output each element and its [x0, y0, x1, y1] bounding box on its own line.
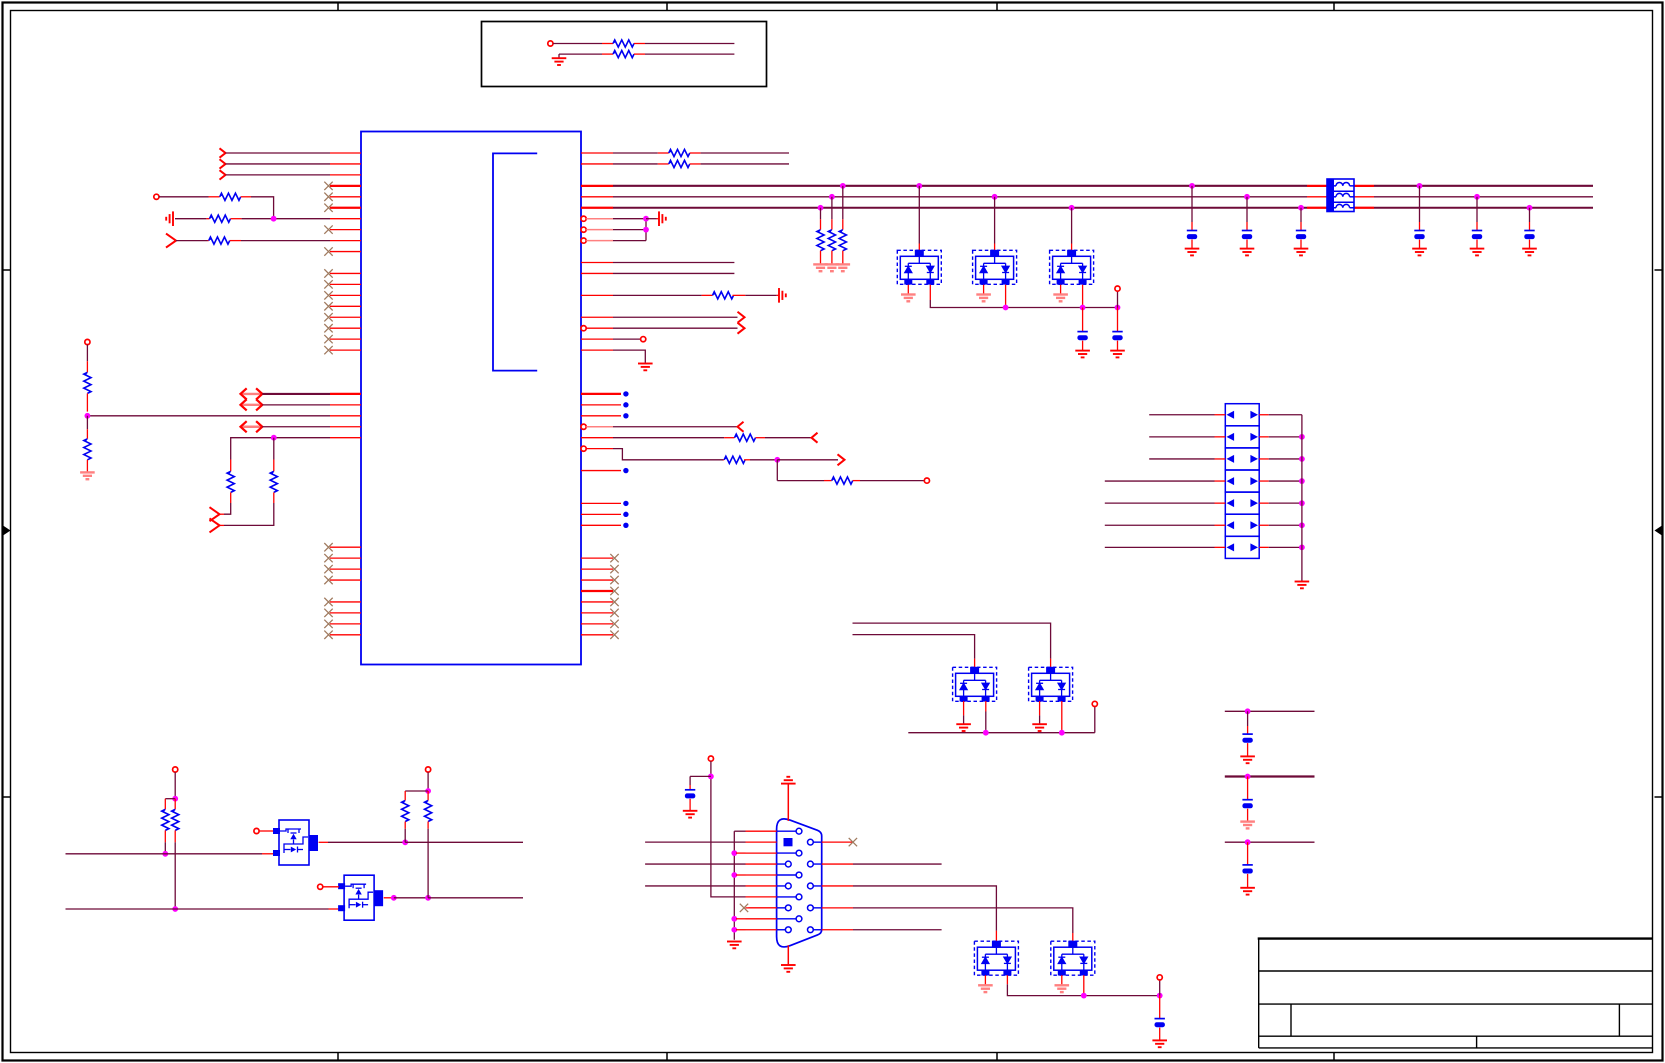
pin — [330, 404, 361, 406]
wire — [613, 152, 658, 154]
esd array D3 — [1050, 250, 1094, 285]
connector pin — [777, 907, 786, 909]
wire — [1269, 414, 1302, 416]
capacitor — [1414, 231, 1424, 240]
pin — [330, 240, 361, 242]
cap lead — [1246, 240, 1248, 249]
pin lead — [230, 240, 241, 242]
resistor R19 — [425, 801, 432, 822]
pin lead — [602, 43, 613, 45]
diode pair D16 — [1225, 536, 1259, 558]
cap lead — [1247, 809, 1249, 821]
pin — [1215, 502, 1226, 504]
border zone ticks left — [3, 270, 11, 797]
capacitor — [1242, 865, 1252, 874]
terminal P13 — [1157, 975, 1162, 980]
resistor lead — [164, 799, 166, 810]
pin — [746, 918, 777, 920]
resistor R1 — [613, 40, 634, 47]
pin — [1215, 414, 1226, 416]
pin — [330, 152, 361, 154]
no-connect X — [324, 565, 332, 573]
pin lead — [329, 908, 339, 910]
stub — [736, 918, 746, 920]
resistor lead — [658, 163, 669, 165]
no-connect X — [324, 302, 332, 310]
pin — [581, 437, 613, 439]
junction — [829, 194, 835, 200]
junction — [774, 457, 780, 463]
junction — [818, 205, 824, 211]
test point — [623, 391, 628, 396]
bus wire — [613, 196, 1307, 198]
cap lead — [1117, 308, 1119, 332]
wire — [427, 772, 429, 791]
pin — [330, 557, 361, 559]
pin — [822, 885, 853, 887]
wire — [174, 842, 176, 909]
connector pin — [777, 852, 797, 854]
wire — [86, 416, 88, 429]
wire — [66, 853, 263, 855]
junction — [1299, 478, 1305, 484]
wire — [1476, 197, 1478, 222]
junction — [425, 788, 431, 794]
connector pin — [777, 896, 797, 898]
resistor lead — [230, 492, 232, 503]
pin — [746, 929, 777, 931]
pin — [746, 830, 777, 832]
terminal P9 — [254, 828, 259, 833]
ground — [1240, 888, 1255, 895]
pin — [330, 283, 361, 285]
resistor lead — [724, 437, 734, 439]
pin lead — [929, 285, 931, 300]
wire — [820, 208, 822, 220]
wire — [226, 174, 331, 176]
junction — [1299, 500, 1305, 506]
pin lead — [984, 975, 986, 984]
pin — [581, 404, 621, 406]
pin — [746, 896, 777, 898]
resistor R8 — [84, 372, 91, 393]
pin — [330, 196, 361, 198]
resistor — [839, 230, 846, 251]
pin lead — [1006, 975, 1008, 984]
pin — [1215, 436, 1226, 438]
pin — [1215, 458, 1226, 460]
ground — [80, 472, 95, 479]
wire — [226, 152, 331, 154]
no-connect X — [324, 280, 332, 288]
junction — [162, 851, 168, 857]
connector pin — [777, 929, 786, 931]
wire — [328, 841, 405, 843]
pin — [330, 349, 361, 351]
pin — [1259, 524, 1269, 526]
ground — [1152, 1040, 1167, 1047]
pin — [330, 393, 361, 395]
wire — [1105, 480, 1215, 482]
shell stem — [787, 783, 789, 821]
junction — [1417, 183, 1423, 189]
resistor R13 — [735, 434, 756, 441]
pin lead — [208, 240, 209, 242]
pin — [822, 841, 853, 843]
wire — [428, 897, 523, 899]
ground — [956, 724, 971, 731]
resistor lead — [164, 830, 166, 842]
pin — [581, 612, 613, 614]
cap lead — [1419, 240, 1421, 249]
cap lead — [1300, 222, 1302, 231]
pin — [330, 251, 361, 253]
resistor — [828, 230, 835, 251]
no-connect X — [324, 269, 332, 277]
junction — [172, 906, 178, 912]
stub — [736, 852, 746, 854]
wire — [394, 897, 428, 899]
no-connect X — [324, 554, 332, 562]
resistor lead — [842, 219, 844, 229]
pin — [581, 152, 613, 154]
connector pin — [813, 907, 821, 909]
diode pair D14 — [1225, 492, 1259, 514]
wire — [645, 863, 745, 865]
off-sheet arrow — [738, 422, 744, 432]
resistor lead — [842, 251, 844, 264]
connector pin — [813, 885, 821, 887]
capacitor — [1242, 800, 1252, 809]
pin lead — [634, 43, 645, 45]
cap lead — [1159, 996, 1161, 1019]
pin — [822, 907, 853, 909]
pin terminal — [581, 446, 586, 451]
bus wire — [1225, 775, 1315, 777]
wire — [231, 438, 274, 460]
cap lead — [1117, 341, 1119, 350]
pin — [581, 272, 613, 274]
wire — [853, 635, 975, 659]
cap lead — [1419, 222, 1421, 231]
pin — [581, 294, 613, 296]
pin lead — [1050, 659, 1052, 668]
resistor R15 — [832, 477, 853, 484]
resistor R12 — [713, 292, 734, 299]
no-connect X — [324, 313, 332, 321]
pin — [330, 426, 361, 428]
no-connect X — [610, 576, 618, 584]
pin — [330, 305, 361, 307]
junction — [1157, 993, 1163, 999]
resistor R18 — [402, 801, 409, 822]
junction — [731, 916, 737, 922]
no-connect X — [324, 324, 332, 332]
wire — [553, 43, 602, 45]
off-sheet arrow — [220, 159, 226, 168]
resistor lead — [702, 294, 713, 296]
pin — [581, 601, 613, 603]
junction — [1003, 305, 1009, 311]
ground — [1185, 249, 1200, 256]
junction — [1069, 205, 1075, 211]
junction — [1527, 205, 1533, 211]
pin — [330, 163, 361, 165]
wire — [777, 459, 838, 461]
pin lead — [1061, 975, 1063, 984]
ground — [779, 288, 786, 303]
junction — [643, 216, 649, 222]
wire — [842, 186, 844, 219]
capacitor — [1242, 734, 1252, 743]
ground — [1240, 249, 1255, 256]
wire — [733, 831, 735, 940]
resistor lead — [86, 393, 88, 411]
wire — [1301, 415, 1303, 581]
junction — [731, 872, 737, 878]
ground — [1294, 249, 1309, 256]
pin lead — [1061, 701, 1063, 733]
no-connect X — [324, 193, 332, 201]
resistor lead — [86, 361, 88, 372]
junction — [1299, 544, 1305, 550]
connector pin — [777, 918, 797, 920]
pin lead — [907, 285, 909, 294]
no-connect X — [324, 543, 332, 551]
esd array D1 — [897, 250, 941, 285]
off-sheet double arrow — [241, 388, 263, 399]
cap lead — [1300, 240, 1302, 249]
pin lead — [220, 524, 225, 526]
no-connect X — [610, 587, 618, 595]
resistor R10 — [669, 149, 690, 156]
junction — [271, 216, 277, 222]
pin — [330, 415, 361, 417]
capacitor — [685, 790, 695, 799]
diode pair D10 — [1225, 404, 1259, 426]
cap lead — [1247, 874, 1249, 887]
pin — [330, 579, 361, 581]
pin — [586, 229, 613, 231]
test point — [623, 468, 628, 473]
resistor lead — [733, 294, 746, 296]
choke lead — [1354, 196, 1374, 198]
pin — [586, 240, 613, 242]
junction — [1059, 730, 1065, 736]
junction — [1189, 183, 1195, 189]
esd array D5 — [1029, 667, 1073, 702]
cap lead — [1247, 777, 1249, 800]
off-sheet arrow — [210, 507, 220, 521]
ground stem — [1039, 715, 1041, 723]
detail box — [482, 22, 767, 87]
resistor R3 — [220, 193, 241, 200]
pin — [330, 568, 361, 570]
ground — [659, 211, 666, 226]
cap lead — [689, 799, 691, 810]
no-connect X — [740, 904, 748, 912]
ground — [552, 58, 567, 65]
pin terminal — [581, 424, 586, 429]
junction — [731, 850, 737, 856]
resistor R11 — [669, 160, 690, 167]
ground — [1075, 351, 1090, 358]
wire — [689, 776, 691, 785]
off-sheet arrow — [166, 234, 176, 248]
wire — [645, 219, 647, 241]
no-connect X — [324, 204, 332, 212]
resistor lead — [820, 219, 822, 229]
pin — [581, 634, 613, 636]
wire — [1246, 197, 1248, 222]
pin — [330, 338, 361, 340]
pin — [1259, 502, 1269, 504]
connector pin — [777, 885, 786, 887]
terminal P5 — [924, 478, 929, 483]
resistor R6 — [227, 471, 234, 492]
wire — [1529, 208, 1531, 222]
capacitor — [1296, 231, 1306, 240]
junction — [983, 730, 989, 736]
wire — [613, 327, 738, 329]
wire — [613, 350, 645, 363]
test point — [623, 512, 628, 517]
wire — [226, 163, 331, 165]
connector J1 body — [777, 819, 822, 947]
choke lead — [1354, 207, 1374, 209]
wire — [765, 437, 812, 439]
terminal P2 — [154, 194, 159, 199]
terminal P10 — [318, 884, 323, 889]
resistor lead — [723, 459, 724, 461]
wire — [405, 790, 428, 792]
wire — [159, 196, 209, 198]
resistor lead — [831, 251, 833, 264]
junction — [425, 895, 431, 901]
mosfet Q1 — [273, 820, 318, 865]
pin — [1259, 546, 1269, 548]
no-connect X — [324, 598, 332, 606]
ground — [976, 295, 991, 302]
pin lead — [1082, 285, 1084, 308]
connector pin — [813, 929, 821, 931]
pin lead — [241, 196, 251, 198]
cap lead — [1529, 222, 1531, 231]
border zone ticks bottom — [338, 1053, 1334, 1061]
off-sheet arrow — [812, 433, 818, 443]
wire — [262, 404, 330, 406]
wire — [613, 218, 646, 220]
resistor R7 — [270, 471, 277, 492]
no-connect X — [324, 620, 332, 628]
pin lead — [1039, 701, 1041, 715]
esd array D6 — [974, 941, 1018, 976]
pin — [581, 415, 621, 417]
pin lead — [963, 701, 965, 715]
wire — [985, 712, 987, 733]
diode pair D15 — [1225, 514, 1259, 536]
wire — [1007, 984, 1159, 995]
diode pair D13 — [1225, 470, 1259, 492]
cap lead — [1247, 842, 1249, 865]
choke lead — [1307, 207, 1327, 209]
border mid arrow right — [1655, 526, 1663, 536]
no-connect X — [610, 609, 618, 617]
ground — [1240, 822, 1255, 829]
terminal P3 — [85, 339, 90, 344]
junction — [992, 194, 998, 200]
resistor lead — [86, 460, 88, 472]
pin lead — [1072, 933, 1074, 941]
shell stem — [787, 945, 789, 964]
pin lead — [1005, 285, 1007, 308]
ic U1 — [361, 132, 581, 665]
cap lead — [1529, 240, 1531, 249]
wire — [559, 53, 602, 55]
wire — [1419, 186, 1421, 222]
pin — [330, 612, 361, 614]
wire — [1105, 502, 1215, 504]
pin lead — [1060, 285, 1062, 294]
pin — [1259, 480, 1269, 482]
resistor lead — [744, 459, 750, 461]
stub — [736, 874, 746, 876]
wire — [711, 776, 746, 897]
no-connect X — [610, 554, 618, 562]
off-sheet arrow — [738, 323, 745, 334]
no-connect X — [324, 631, 332, 639]
wire — [613, 163, 658, 165]
wire — [175, 218, 206, 220]
resistor — [817, 230, 824, 251]
ground — [1470, 249, 1485, 256]
resistor lead — [831, 219, 833, 229]
pin lead — [220, 513, 225, 515]
pin — [746, 885, 777, 887]
junction — [1298, 205, 1304, 211]
wire — [87, 415, 330, 417]
resistor R17 — [172, 809, 179, 830]
wire — [613, 338, 641, 340]
wire — [1149, 458, 1214, 460]
cap lead — [1247, 743, 1249, 756]
resistor lead — [820, 251, 822, 264]
pin terminal — [581, 238, 586, 243]
ground stem — [777, 294, 779, 296]
pin — [586, 218, 613, 220]
wire — [262, 393, 330, 395]
ground — [901, 295, 916, 302]
stub — [748, 907, 776, 909]
pin — [330, 272, 361, 274]
wire — [613, 294, 702, 296]
pin lead — [602, 53, 613, 55]
cap lead — [1476, 222, 1478, 231]
esd array D2 — [973, 250, 1017, 285]
ground stem — [963, 715, 965, 723]
wire — [1149, 414, 1214, 416]
esd array D7 — [1051, 941, 1095, 976]
resistor lead — [174, 830, 176, 842]
pin — [330, 185, 361, 187]
resistor R4 — [210, 215, 231, 222]
ground — [638, 364, 653, 371]
wire — [164, 842, 166, 854]
title block — [1258, 939, 1653, 1048]
wire — [701, 152, 789, 154]
wire — [224, 503, 274, 525]
wire — [645, 885, 745, 887]
